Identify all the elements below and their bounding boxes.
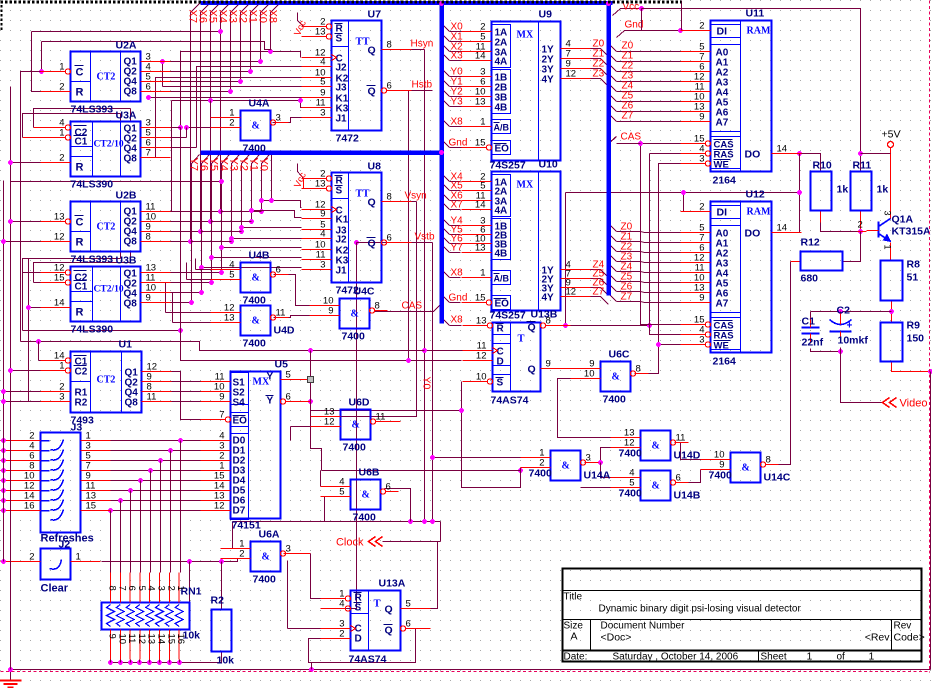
junction X3 [228, 89, 233, 94]
wire U8 J1 [202, 267, 302, 269]
svg-text:12: 12 [566, 69, 577, 80]
svg-text:15: 15 [165, 634, 176, 645]
wire riser Y0 from Y bus [262, 155, 270, 212]
port Clock [336, 537, 383, 549]
junction Vstb [354, 240, 359, 245]
junction X5 [208, 219, 213, 224]
svg-text:U3B: U3B [116, 255, 137, 267]
junction RN1 riser 4 [138, 478, 143, 483]
junction [309, 667, 314, 672]
svg-text:3: 3 [699, 154, 704, 165]
wire U7 J2,K2,J3,K1 feeds [197, 67, 302, 148]
junction RN1 riser 2 [158, 458, 163, 463]
wire +5V down to Q1A collector [890, 148, 892, 220]
svg-text:4: 4 [320, 57, 325, 68]
bus entry [609, 74, 617, 82]
svg-text:13: 13 [146, 634, 157, 645]
NAND gate U4C 7400 [310, 286, 388, 343]
wire U4A input 2 [187, 127, 241, 129]
svg-text:U4D: U4D [274, 325, 295, 337]
svg-text:Gnd: Gnd [449, 138, 468, 149]
wire Hstb row to U13B D [181, 128, 462, 361]
svg-text:U6D: U6D [349, 397, 370, 409]
junction [189, 300, 194, 305]
svg-text:U8: U8 [368, 161, 382, 173]
svg-text:4: 4 [320, 229, 325, 240]
wire U8 K1 [252, 211, 302, 218]
wire riser Y4 from Y bus [222, 155, 230, 273]
svg-text:12: 12 [476, 351, 487, 362]
junction [1, 399, 6, 404]
wire R2 top [221, 562, 223, 610]
wire riser X0 to top bus [261, 4, 270, 62]
NAND gate U6C 7400 [571, 349, 649, 406]
junction J2 trunk [1, 559, 6, 564]
bus entry [442, 79, 450, 87]
wire X8 net from U3A Q1 [181, 52, 301, 128]
svg-text:1: 1 [883, 245, 893, 250]
svg-text:C1: C1 [75, 137, 88, 148]
junction J3 trunk [1, 478, 6, 483]
wire U2B Q outputs to X risers [171, 211, 221, 213]
bus entry [609, 114, 617, 122]
junction U2A pin1 [39, 69, 44, 74]
junction [160, 59, 165, 64]
wire R11 node to +5V drop [861, 153, 891, 155]
junction DO [797, 151, 802, 156]
svg-text:3: 3 [586, 453, 591, 464]
junction [598, 460, 603, 465]
wire U7 C pin from U3A Q1 row [141, 127, 181, 129]
bus entry [609, 264, 617, 272]
wire riser X7 to top bus [191, 4, 200, 242]
multiplexer U9 74S257 [449, 9, 605, 172]
wire riser Y2 from Y bus [242, 155, 250, 232]
wire U6D output [377, 421, 401, 423]
svg-text:150: 150 [907, 333, 925, 345]
svg-text:T: T [374, 599, 381, 610]
wire R12 right to base node [843, 232, 861, 262]
svg-text:Z7: Z7 [621, 292, 633, 303]
svg-text:2: 2 [699, 202, 704, 213]
wire U14A out [585, 448, 611, 463]
svg-text:U6C: U6C [609, 349, 630, 361]
svg-text:2: 2 [229, 118, 234, 129]
svg-text:U2A: U2A [116, 40, 137, 52]
svg-text:R2: R2 [211, 595, 225, 607]
junction [239, 225, 244, 230]
junction [249, 219, 254, 224]
svg-text:R9: R9 [907, 320, 921, 332]
svg-text:74LS390: 74LS390 [71, 179, 114, 191]
junction [889, 309, 894, 314]
junction [406, 358, 411, 363]
svg-text:Vstb: Vstb [415, 232, 435, 243]
svg-text:U1: U1 [119, 339, 133, 351]
junction [308, 348, 313, 353]
wire from top edge to DI row [681, 1, 683, 31]
svg-text:U14D: U14D [674, 450, 701, 462]
svg-text:74LS393: 74LS393 [71, 104, 114, 116]
bus entry [442, 183, 450, 191]
svg-text:R2: R2 [75, 398, 88, 409]
wire U2B pin13 [11, 221, 41, 223]
junction [8, 160, 13, 165]
svg-text:11: 11 [147, 392, 157, 403]
svg-text:74S257: 74S257 [490, 310, 526, 322]
svg-text:U11: U11 [746, 8, 765, 20]
wire to U7 S pin 13 [42, 42, 272, 50]
svg-text:RAM: RAM [747, 26, 771, 37]
junction RN1 bottom [157, 660, 162, 665]
svg-text:13: 13 [475, 243, 486, 254]
junction [219, 245, 224, 250]
bus entry [442, 202, 450, 210]
svg-text:U4B: U4B [249, 250, 270, 262]
svg-text:10k: 10k [217, 655, 235, 667]
junction RN1 bottom [108, 660, 113, 665]
bus entry [609, 284, 617, 292]
junction RN1 bottom [177, 660, 182, 665]
wire U3B Q rows to Y risers [171, 272, 222, 274]
bus entry [609, 274, 617, 282]
wire U8 C from Y0 riser [262, 201, 302, 208]
svg-text:&: & [262, 552, 270, 563]
svg-text:<Doc>: <Doc> [601, 632, 632, 644]
wire C2 top [840, 312, 842, 320]
wire U6A pin1 [232, 522, 234, 549]
svg-text:8: 8 [546, 316, 551, 327]
wire U8 J3 [242, 227, 302, 229]
svg-text:CT2/10: CT2/10 [94, 285, 124, 295]
svg-text:WE: WE [714, 160, 729, 171]
svg-text:2: 2 [539, 458, 544, 469]
svg-text:DO: DO [745, 228, 761, 240]
resistor R12 680 [801, 237, 843, 285]
svg-text:16: 16 [175, 634, 186, 645]
wire riser Y1 from Y bus [252, 155, 260, 222]
svg-text:1: 1 [59, 361, 64, 372]
svg-text:1: 1 [869, 651, 875, 663]
wire U6C input 10 to U14D input row [558, 379, 611, 438]
junction DI [681, 190, 686, 195]
svg-text:Y: Y [267, 372, 274, 383]
wire U6D pin12 riser [290, 427, 292, 441]
svg-text:6: 6 [387, 81, 392, 92]
resistor R2 10k [211, 595, 235, 667]
svg-text:3: 3 [320, 108, 325, 119]
svg-text:3: 3 [883, 211, 893, 216]
junction J3 trunk [1, 438, 6, 443]
svg-text:7400: 7400 [529, 468, 553, 480]
junction X7 [188, 239, 193, 244]
svg-text:U7: U7 [368, 9, 382, 21]
svg-text:7400: 7400 [243, 143, 267, 155]
svg-text:6: 6 [126, 586, 137, 591]
svg-text:Title: Title [564, 592, 583, 603]
wire RN1 bottom rail [111, 660, 222, 663]
connector J3 (Refreshes) [13, 422, 111, 545]
wire left trunk x=3 [3, 181, 5, 562]
wire U14B input 5 [581, 487, 611, 489]
NAND gate U14D 7400 [611, 428, 701, 462]
wire U8 K3 [212, 257, 302, 259]
wire riser X8 to top bus [271, 4, 280, 52]
wire U6C out to WE rail [635, 345, 681, 374]
NAND gate U6D 7400 [311, 397, 389, 454]
wire U4D inputs [166, 312, 211, 314]
counter U1 7493 [41, 339, 172, 427]
junction [26, 305, 31, 310]
junction X8 [268, 49, 273, 54]
svg-text:Q: Q [528, 364, 536, 376]
wire Hsyn net (U7 Q) [412, 49, 425, 51]
svg-text:R8: R8 [907, 259, 921, 271]
junction [219, 559, 224, 564]
wire Hstb net (U7 Qbar) [412, 90, 433, 92]
svg-text:RAM: RAM [747, 207, 771, 218]
junction DO-DI [797, 190, 802, 195]
wire U13A R from U6A [284, 553, 311, 555]
wire C2 bottom down to Video [841, 348, 883, 403]
svg-text:10mkf: 10mkf [838, 335, 869, 347]
svg-text:5: 5 [286, 370, 291, 381]
wire U3A pins [120, 114, 122, 128]
junction [259, 198, 264, 203]
wire J3 left feeds from trunk [1, 440, 13, 442]
svg-text:Z7: Z7 [593, 287, 605, 298]
svg-text:7: 7 [146, 148, 151, 159]
svg-text:8: 8 [387, 40, 392, 51]
RAM U12 2164 [681, 189, 802, 368]
svg-text:U13A: U13A [379, 578, 406, 590]
bus entry [601, 288, 609, 296]
wire U6D inputs [291, 426, 341, 428]
svg-text:74AS74: 74AS74 [349, 654, 387, 666]
junction RN1 riser 7 [108, 508, 113, 513]
svg-text:Q: Q [368, 86, 376, 98]
junction right border [928, 369, 932, 374]
wire J2 pin1 row [102, 559, 251, 562]
flip-flop U13A 74AS74 [321, 578, 431, 666]
svg-text:12: 12 [54, 232, 65, 243]
svg-text:3: 3 [320, 260, 325, 271]
bus entry [442, 44, 450, 52]
bus: left vertical bus x=441 [439, 2, 444, 324]
title block [563, 569, 925, 663]
junction Ybar [308, 399, 313, 404]
junction J3 trunk [1, 498, 6, 503]
svg-text:Q8: Q8 [124, 154, 138, 165]
svg-text:Z7: Z7 [622, 111, 634, 122]
svg-text:2: 2 [239, 549, 244, 560]
wire U13B Q to U6C [541, 368, 571, 370]
junction [408, 519, 413, 524]
svg-text:5: 5 [229, 270, 234, 281]
svg-text:5: 5 [136, 586, 147, 591]
svg-text:R: R [76, 237, 84, 249]
bus: right vertical bus x=608 [606, 2, 611, 296]
svg-text:CAS: CAS [402, 301, 423, 312]
junction [422, 519, 427, 524]
wire row y=100 feeding U7 K3 and U4A [172, 101, 302, 108]
svg-text:4Y: 4Y [542, 293, 555, 304]
svg-text:74AS74: 74AS74 [491, 395, 529, 407]
wire right edge trunk down to ground rail [930, 372, 932, 670]
svg-text:X3: X3 [451, 51, 464, 62]
junction [259, 209, 264, 214]
svg-text:R: R [76, 307, 84, 319]
svg-text:6: 6 [387, 233, 392, 244]
bus entry [601, 297, 609, 305]
junction RN1 bottom [147, 660, 152, 665]
svg-text:14: 14 [54, 298, 65, 309]
wire U12 CAS stub joins [617, 143, 641, 145]
svg-text:U14B: U14B [674, 490, 701, 502]
bus entry [601, 49, 609, 57]
svg-text:MX: MX [517, 180, 534, 191]
svg-text:Code>: Code> [894, 632, 925, 644]
sheet border: bottom magenta dashed [1, 671, 930, 673]
svg-text:C1: C1 [802, 316, 816, 328]
wire U4D out to U4C input 9 [274, 316, 310, 318]
bus entry [609, 254, 617, 262]
bus entry [601, 279, 609, 287]
wire U2B pin12 [4, 241, 41, 243]
svg-text:2: 2 [59, 153, 64, 164]
svg-text:13: 13 [315, 27, 326, 38]
svg-text:U14C: U14C [764, 472, 791, 484]
svg-text:Rev: Rev [894, 621, 912, 632]
junction WE [656, 342, 661, 347]
junction Hsyn to U13B clock [422, 348, 427, 353]
svg-text:74LS390: 74LS390 [71, 324, 114, 336]
wire R8/R9 node to C1C2 rail [811, 311, 892, 313]
junction RN1 bottom [167, 660, 172, 665]
wire riser X6 to top bus [201, 4, 210, 232]
counter U3B 74LS390 [41, 255, 171, 336]
wire Vsyn net (U8 Q) [412, 201, 417, 203]
wire C1/C2 bottom rail [811, 349, 841, 352]
svg-text:2: 2 [858, 220, 863, 231]
svg-text:X8: X8 [451, 315, 464, 326]
svg-text:U6A: U6A [259, 529, 280, 541]
wire U4A out to U7 J1 [273, 118, 302, 123]
wire riser X4 to top bus [221, 4, 230, 212]
svg-text:3: 3 [276, 113, 281, 124]
wire base node to transistor [858, 231, 867, 233]
svg-text:Hstb: Hstb [412, 80, 433, 91]
junction X6 [198, 229, 203, 234]
svg-text:Y: Y [267, 396, 274, 407]
svg-text:9: 9 [219, 392, 224, 403]
bus entry [609, 137, 617, 144]
svg-text:6: 6 [386, 482, 391, 493]
junction [218, 29, 223, 34]
svg-text:7472: 7472 [336, 133, 360, 145]
wire row y=330 [23, 330, 181, 332]
svg-text:2: 2 [699, 21, 704, 32]
svg-text:74151: 74151 [232, 520, 261, 532]
svg-text:7400: 7400 [243, 338, 267, 350]
svg-text:13: 13 [224, 313, 235, 324]
svg-text:9: 9 [320, 209, 325, 220]
resistor R8 51 [881, 259, 921, 301]
bus entry [442, 236, 450, 244]
svg-text:DO: DO [745, 149, 761, 161]
svg-text:5: 5 [339, 487, 344, 498]
svg-text:14: 14 [156, 634, 167, 645]
wire riser X3 to top bus [231, 4, 240, 92]
svg-text:7400: 7400 [709, 470, 733, 482]
svg-text:K1: K1 [336, 215, 349, 226]
svg-text:CT2: CT2 [97, 72, 116, 83]
bus entry [609, 84, 617, 92]
svg-text:X8: X8 [267, 10, 279, 23]
bus entry [442, 318, 450, 326]
svg-text:Document Number: Document Number [601, 621, 686, 632]
svg-text:Q: Q [385, 625, 393, 637]
NAND gate U4D 7400 [211, 303, 295, 350]
bus entry [609, 104, 617, 112]
flip-flop U13B 74AS74 [493, 322, 541, 392]
wire riser Y5 from Y bus [212, 155, 220, 283]
junction [208, 98, 213, 103]
svg-text:Q8: Q8 [125, 398, 139, 409]
svg-text:T: T [518, 334, 525, 345]
flip-flop U8 7472 [302, 161, 412, 297]
svg-text:7400: 7400 [342, 331, 366, 343]
junction [638, 141, 643, 146]
wire bottom long rail [11, 669, 931, 671]
sheet border: top black dashed [1, 1, 682, 4]
svg-text:MX: MX [517, 30, 534, 41]
svg-text:Q: Q [368, 45, 376, 57]
svg-text:S: S [336, 34, 343, 45]
svg-text:D: D [355, 634, 362, 645]
svg-text:5: 5 [629, 478, 634, 489]
svg-text:&: & [612, 372, 620, 383]
bus entry [609, 294, 617, 302]
svg-text:10: 10 [476, 372, 487, 383]
wire to U2A pin2 from X area [32, 31, 221, 33]
svg-text:J1: J1 [336, 114, 348, 125]
svg-text:J2: J2 [336, 63, 348, 74]
bus entry [442, 53, 450, 61]
bus entry [601, 69, 609, 77]
svg-text:14: 14 [475, 200, 486, 211]
bus entry [442, 24, 450, 32]
svg-text:Clear: Clear [41, 583, 69, 595]
junction [8, 219, 13, 224]
svg-text:EO: EO [495, 144, 510, 155]
bus: top horizontal X-bus [201, 1, 613, 5]
wire U13A C [288, 628, 321, 630]
junction [219, 270, 224, 275]
connector J2 (Clear) [13, 539, 101, 595]
svg-text:Q: Q [528, 322, 536, 334]
svg-text:3: 3 [699, 335, 704, 346]
bus entry [442, 174, 450, 182]
svg-text:11: 11 [376, 412, 386, 423]
wire CAS rail [641, 144, 681, 325]
junction [298, 98, 303, 103]
svg-text:7400: 7400 [619, 488, 643, 500]
junction RN1 bottom [128, 660, 133, 665]
svg-text:9: 9 [546, 359, 551, 370]
svg-text:&: & [652, 481, 660, 492]
svg-text:X8: X8 [451, 117, 464, 128]
